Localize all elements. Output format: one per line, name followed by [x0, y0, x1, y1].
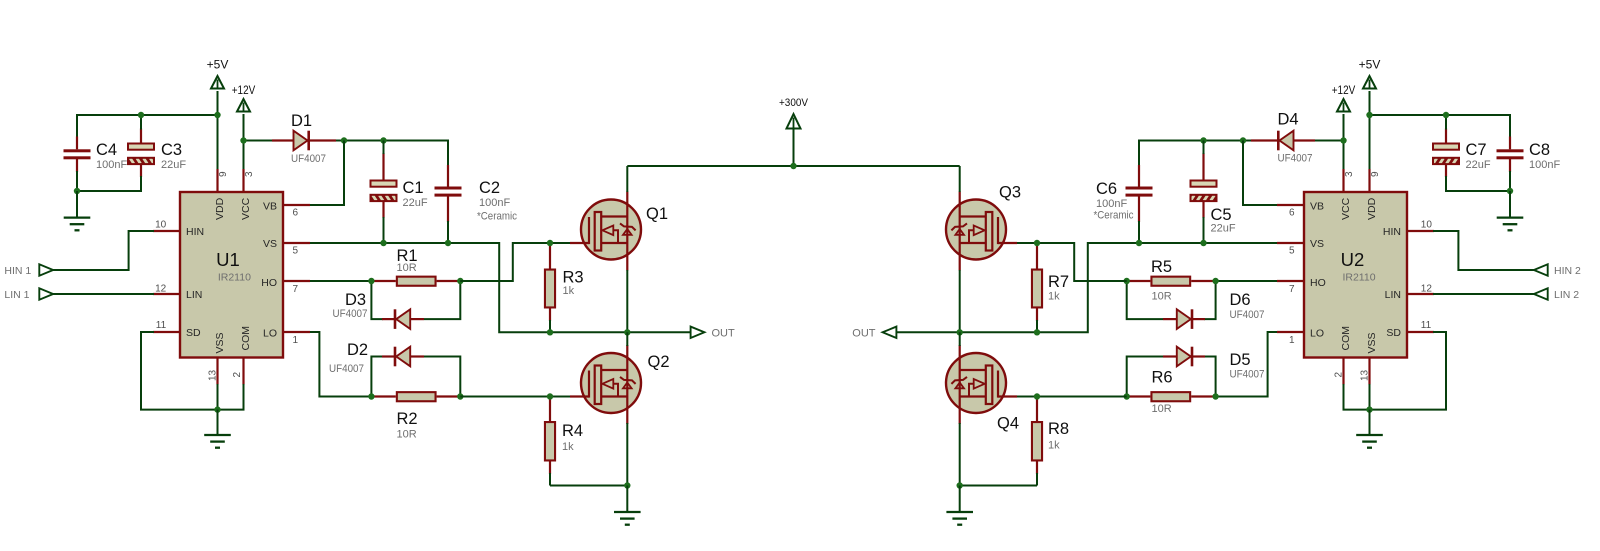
svg-text:VSS: VSS [1366, 332, 1378, 353]
svg-text:VCC: VCC [1340, 197, 1352, 220]
diode D1 [244, 112, 337, 165]
wire [53, 231, 154, 270]
svg-text:HIN: HIN [1383, 226, 1401, 238]
svg-text:+12V: +12V [1332, 85, 1356, 97]
capacitor C8 [1497, 137, 1561, 173]
junction [957, 329, 963, 335]
wire [336, 141, 448, 167]
wire [1433, 293, 1534, 295]
svg-text:13: 13 [1360, 369, 1371, 381]
svg-text:Q1: Q1 [646, 205, 668, 223]
ground (under C4) [64, 191, 91, 230]
svg-text:*Ceramic: *Ceramic [477, 211, 517, 223]
svg-text:R6: R6 [1152, 369, 1173, 387]
svg-text:1: 1 [1289, 335, 1295, 346]
wire [424, 357, 460, 397]
diode D3 [333, 291, 425, 329]
svg-text:LIN 1: LIN 1 [4, 289, 29, 301]
wire [1127, 357, 1163, 397]
wire [1036, 320, 1038, 332]
wire [77, 115, 218, 137]
svg-text:3: 3 [1344, 171, 1355, 177]
wire [141, 332, 218, 410]
wire [218, 384, 244, 410]
wire [1216, 332, 1278, 397]
wire [1370, 332, 1447, 410]
IC U1 (IR2110 gate driver) [153, 169, 310, 385]
svg-text:100nF: 100nF [1096, 198, 1127, 210]
svg-text:10R: 10R [397, 262, 417, 274]
wire [1369, 115, 1371, 170]
resistor R1 [371, 247, 460, 286]
terminal OUT (left) [691, 327, 735, 340]
wire [1445, 115, 1447, 130]
wire [1036, 473, 1038, 486]
transistor Q1 [570, 192, 668, 271]
capacitor C6 [1094, 165, 1153, 222]
junction [240, 137, 246, 143]
svg-text:U1: U1 [216, 249, 240, 270]
wire [627, 165, 959, 167]
wire [1017, 396, 1127, 398]
junction [1034, 240, 1040, 246]
wire [626, 423, 628, 486]
svg-text:R8: R8 [1048, 420, 1069, 438]
junction [457, 278, 463, 284]
wire [1370, 115, 1511, 137]
svg-text:VB: VB [1310, 201, 1324, 213]
diode D4 [1251, 111, 1344, 165]
power +5V (left) [207, 58, 229, 116]
junction [1240, 137, 1246, 143]
svg-text:10R: 10R [1152, 403, 1172, 415]
ground (under C8) [1497, 191, 1524, 230]
power +12V (left) [232, 85, 256, 141]
wire [1344, 384, 1370, 410]
svg-text:LIN 2: LIN 2 [1554, 289, 1579, 301]
svg-text:IR2110: IR2110 [218, 272, 251, 284]
wire [53, 293, 154, 295]
junction [1034, 329, 1040, 335]
terminal OUT (right) [852, 327, 896, 340]
svg-text:R3: R3 [563, 269, 584, 287]
svg-text:HIN: HIN [186, 226, 204, 238]
terminal HIN 1 [4, 264, 53, 277]
wire [77, 171, 141, 191]
svg-text:VS: VS [263, 238, 277, 250]
svg-text:6: 6 [293, 208, 299, 219]
junction [445, 240, 451, 246]
svg-text:C3: C3 [161, 141, 182, 159]
wire [371, 357, 383, 397]
svg-text:COM: COM [240, 326, 252, 351]
junction [214, 406, 220, 412]
svg-text:VDD: VDD [1366, 197, 1378, 220]
junction [1200, 240, 1206, 246]
svg-text:SD: SD [1386, 327, 1401, 339]
wire [550, 485, 627, 487]
junction [1212, 393, 1218, 399]
svg-text:22uF: 22uF [1211, 223, 1236, 235]
junction [1212, 278, 1218, 284]
svg-text:9: 9 [218, 171, 229, 177]
svg-text:11: 11 [1421, 320, 1432, 331]
wire [447, 221, 449, 243]
svg-text:22uF: 22uF [1466, 159, 1491, 171]
junction [547, 240, 553, 246]
svg-text:U2: U2 [1341, 249, 1365, 270]
svg-text:13: 13 [208, 369, 219, 381]
junction [957, 482, 963, 488]
ground (under U1) [204, 410, 231, 448]
junction [380, 240, 386, 246]
junction [1366, 112, 1372, 118]
wire [460, 396, 570, 398]
junction [1443, 112, 1449, 118]
wire [896, 243, 1278, 332]
svg-text:HO: HO [261, 277, 277, 289]
svg-text:2: 2 [1334, 372, 1345, 378]
svg-text:LIN: LIN [186, 289, 202, 301]
wire [1204, 281, 1216, 319]
capacitor C2 [435, 165, 518, 223]
wire [309, 280, 371, 282]
junction [1366, 406, 1372, 412]
wire [1138, 221, 1140, 243]
svg-text:HO: HO [1310, 277, 1326, 289]
wire [1216, 280, 1278, 282]
svg-text:22uF: 22uF [403, 197, 428, 209]
junction [547, 329, 553, 335]
svg-text:VCC: VCC [240, 197, 252, 220]
wire [1433, 231, 1534, 270]
svg-text:D1: D1 [291, 112, 312, 130]
svg-text:OUT: OUT [712, 328, 736, 340]
svg-text:VS: VS [1310, 238, 1324, 250]
wire [243, 141, 245, 171]
svg-text:VDD: VDD [214, 197, 226, 220]
terminal HIN 2 [1534, 264, 1581, 277]
svg-text:1: 1 [293, 335, 299, 346]
svg-text:3: 3 [244, 171, 255, 177]
junction [547, 393, 553, 399]
svg-text:2: 2 [232, 372, 243, 378]
svg-text:Q4: Q4 [997, 415, 1019, 433]
svg-text:HIN 1: HIN 1 [4, 265, 31, 277]
svg-text:Q2: Q2 [648, 353, 670, 371]
wire [959, 332, 961, 346]
svg-text:C8: C8 [1529, 141, 1550, 159]
wire [424, 281, 460, 319]
junction [1340, 137, 1346, 143]
svg-text:10R: 10R [1152, 291, 1172, 303]
ground (under Q4) [946, 486, 973, 525]
svg-text:10: 10 [155, 220, 167, 231]
svg-text:D3: D3 [345, 291, 366, 309]
svg-text:R2: R2 [397, 410, 418, 428]
svg-text:12: 12 [1421, 283, 1433, 294]
svg-text:Q3: Q3 [999, 184, 1021, 202]
svg-text:C4: C4 [96, 141, 117, 159]
svg-text:SD: SD [186, 327, 201, 339]
resistor R3 [545, 243, 584, 321]
terminal LIN 2 [1534, 288, 1579, 301]
diode D6 [1163, 291, 1265, 329]
wire [1203, 141, 1205, 155]
wire [371, 281, 383, 319]
svg-text:1k: 1k [1048, 440, 1060, 452]
transistor Q2 [570, 345, 670, 424]
svg-text:R5: R5 [1151, 258, 1172, 276]
svg-text:HIN 2: HIN 2 [1554, 265, 1581, 277]
svg-text:12: 12 [155, 283, 167, 294]
svg-text:*Ceramic: *Ceramic [1094, 210, 1134, 222]
ground (under Q2) [614, 486, 641, 525]
terminal LIN 1 [4, 288, 53, 301]
svg-text:9: 9 [1370, 171, 1381, 177]
wire [140, 115, 142, 130]
junction [368, 393, 374, 399]
resistor R6 [1127, 369, 1216, 416]
svg-text:11: 11 [156, 320, 167, 331]
svg-text:22uF: 22uF [161, 159, 186, 171]
svg-text:UF4007: UF4007 [1278, 153, 1313, 165]
wire [383, 141, 385, 155]
svg-text:C7: C7 [1466, 141, 1487, 159]
svg-text:UF4007: UF4007 [291, 153, 326, 165]
transistor Q4 [946, 345, 1019, 433]
wire [1127, 281, 1163, 319]
svg-text:C5: C5 [1211, 206, 1232, 224]
junction [341, 137, 347, 143]
capacitor C4 [64, 137, 128, 173]
svg-text:10R: 10R [397, 429, 417, 441]
svg-text:7: 7 [293, 284, 299, 295]
junction [1507, 188, 1513, 194]
svg-text:100nF: 100nF [96, 159, 127, 171]
junction [1124, 278, 1130, 284]
junction [457, 393, 463, 399]
wire [626, 270, 628, 332]
wire [1369, 384, 1371, 410]
wire [1343, 141, 1345, 171]
svg-text:+5V: +5V [1359, 58, 1381, 72]
wire [217, 384, 219, 410]
capacitor C7 [1432, 129, 1491, 178]
svg-text:IR2110: IR2110 [1342, 272, 1375, 284]
svg-text:100nF: 100nF [479, 197, 510, 209]
wire [1243, 141, 1281, 206]
junction [138, 112, 144, 118]
wire [1017, 243, 1127, 281]
power +12V (right) [1332, 85, 1356, 141]
junction [214, 112, 220, 118]
svg-text:LO: LO [263, 328, 277, 340]
wire [959, 270, 961, 332]
svg-text:7: 7 [1289, 284, 1295, 295]
svg-text:UF4007: UF4007 [329, 363, 364, 375]
power +5V (right) [1359, 58, 1381, 116]
svg-text:R4: R4 [562, 422, 583, 440]
svg-text:+5V: +5V [207, 58, 229, 72]
transistor Q3 [946, 184, 1021, 271]
svg-text:UF4007: UF4007 [1230, 309, 1265, 321]
svg-text:10: 10 [1421, 220, 1433, 231]
wire [549, 473, 551, 486]
svg-text:D4: D4 [1278, 111, 1299, 129]
svg-text:+12V: +12V [232, 85, 256, 97]
wire [960, 485, 1037, 487]
junction [1124, 393, 1130, 399]
svg-text:UF4007: UF4007 [1230, 369, 1265, 381]
svg-text:VB: VB [263, 201, 277, 213]
wire [626, 332, 628, 346]
svg-text:UF4007: UF4007 [333, 308, 368, 320]
IC U2 (IR2110 gate driver) [1277, 169, 1434, 385]
diode D2 [329, 341, 424, 375]
svg-text:5: 5 [293, 246, 299, 257]
junction [368, 278, 374, 284]
wire [383, 217, 385, 243]
svg-text:1k: 1k [563, 285, 575, 297]
capacitor C3 [127, 129, 186, 178]
junction [74, 188, 80, 194]
junction [624, 482, 630, 488]
wire [460, 243, 570, 281]
resistor R8 [1032, 397, 1069, 475]
svg-text:1k: 1k [1048, 291, 1060, 303]
svg-text:VSS: VSS [214, 332, 226, 353]
svg-text:LIN: LIN [1385, 289, 1401, 301]
svg-text:R7: R7 [1048, 273, 1069, 291]
diode D5 [1163, 347, 1265, 381]
wire [1204, 357, 1216, 397]
svg-text:D6: D6 [1230, 291, 1251, 309]
svg-text:LO: LO [1310, 328, 1324, 340]
junction [1136, 240, 1142, 246]
wire [217, 115, 219, 170]
wire [309, 243, 691, 332]
wire [626, 166, 628, 192]
wire [1446, 171, 1510, 191]
resistor R7 [1032, 243, 1069, 321]
svg-text:C1: C1 [403, 179, 424, 197]
junction [624, 329, 630, 335]
svg-text:5: 5 [1289, 246, 1295, 257]
svg-text:6: 6 [1289, 208, 1295, 219]
svg-text:C2: C2 [479, 179, 500, 197]
junction [1200, 137, 1206, 143]
svg-text:D5: D5 [1230, 351, 1251, 369]
ground (under U2) [1356, 410, 1383, 448]
svg-text:COM: COM [1340, 326, 1352, 351]
svg-text:+300V: +300V [779, 97, 809, 109]
svg-text:100nF: 100nF [1529, 159, 1560, 171]
resistor R5 [1127, 258, 1216, 303]
wire [959, 423, 961, 486]
wire [549, 320, 551, 332]
wire [1139, 141, 1251, 167]
svg-text:OUT: OUT [852, 328, 876, 340]
wire [1203, 217, 1205, 243]
junction [380, 137, 386, 143]
svg-text:1k: 1k [562, 441, 574, 453]
junction [790, 163, 796, 169]
capacitor C1 [370, 153, 428, 218]
wire [959, 166, 961, 192]
svg-text:D2: D2 [347, 341, 368, 359]
svg-text:C6: C6 [1096, 180, 1117, 198]
resistor R4 [545, 397, 583, 475]
capacitor C5 [1190, 153, 1236, 235]
wire [306, 141, 344, 206]
power +300V [779, 97, 809, 166]
junction [1034, 393, 1040, 399]
resistor R2 [371, 392, 460, 440]
wire [309, 332, 371, 397]
